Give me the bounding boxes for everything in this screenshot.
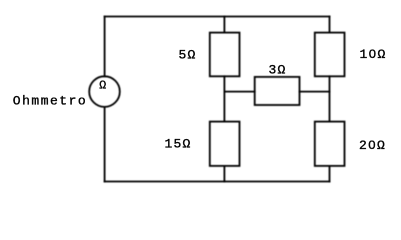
wire junction to left lead of 3-ohm resistor (224, 91, 254, 93)
svg-text:Ohmmetro: Ohmmetro (13, 93, 87, 108)
white patch hiding zero counter dot of 20-ohm label (371, 143, 374, 147)
wire left vertical lower segment (104, 107, 106, 182)
ohmmeter circle (89, 76, 120, 107)
wire bottom lead of 20-ohm resistor (329, 166, 331, 182)
wire top lead of 5-ohm resistor (223, 17, 225, 33)
svg-text:Ω: Ω (99, 79, 107, 92)
white patch hiding zero counter dot of 10-ohm label (371, 52, 374, 56)
resistor 20-ohm body (315, 122, 345, 166)
resistor 15-ohm body (210, 122, 240, 166)
svg-text:15Ω: 15Ω (165, 137, 192, 152)
svg-text:3Ω: 3Ω (269, 63, 287, 78)
wire bottom lead of 15-ohm resistor (223, 166, 225, 182)
svg-text:5Ω: 5Ω (179, 48, 197, 63)
resistor 10-ohm body (315, 33, 345, 77)
resistor 5-ohm body (210, 33, 240, 77)
wire between 10-ohm and 20-ohm resistors (329, 76, 331, 121)
resistor 3-ohm body (255, 77, 300, 105)
wire left vertical upper segment (104, 17, 106, 77)
wire top lead of 10-ohm resistor (329, 17, 331, 33)
wire bottom horizontal (105, 181, 330, 183)
wire between 5-ohm and 15-ohm resistors (223, 76, 225, 121)
wire top horizontal (105, 16, 330, 18)
wire right lead of 3-ohm resistor to right branch (300, 91, 330, 93)
